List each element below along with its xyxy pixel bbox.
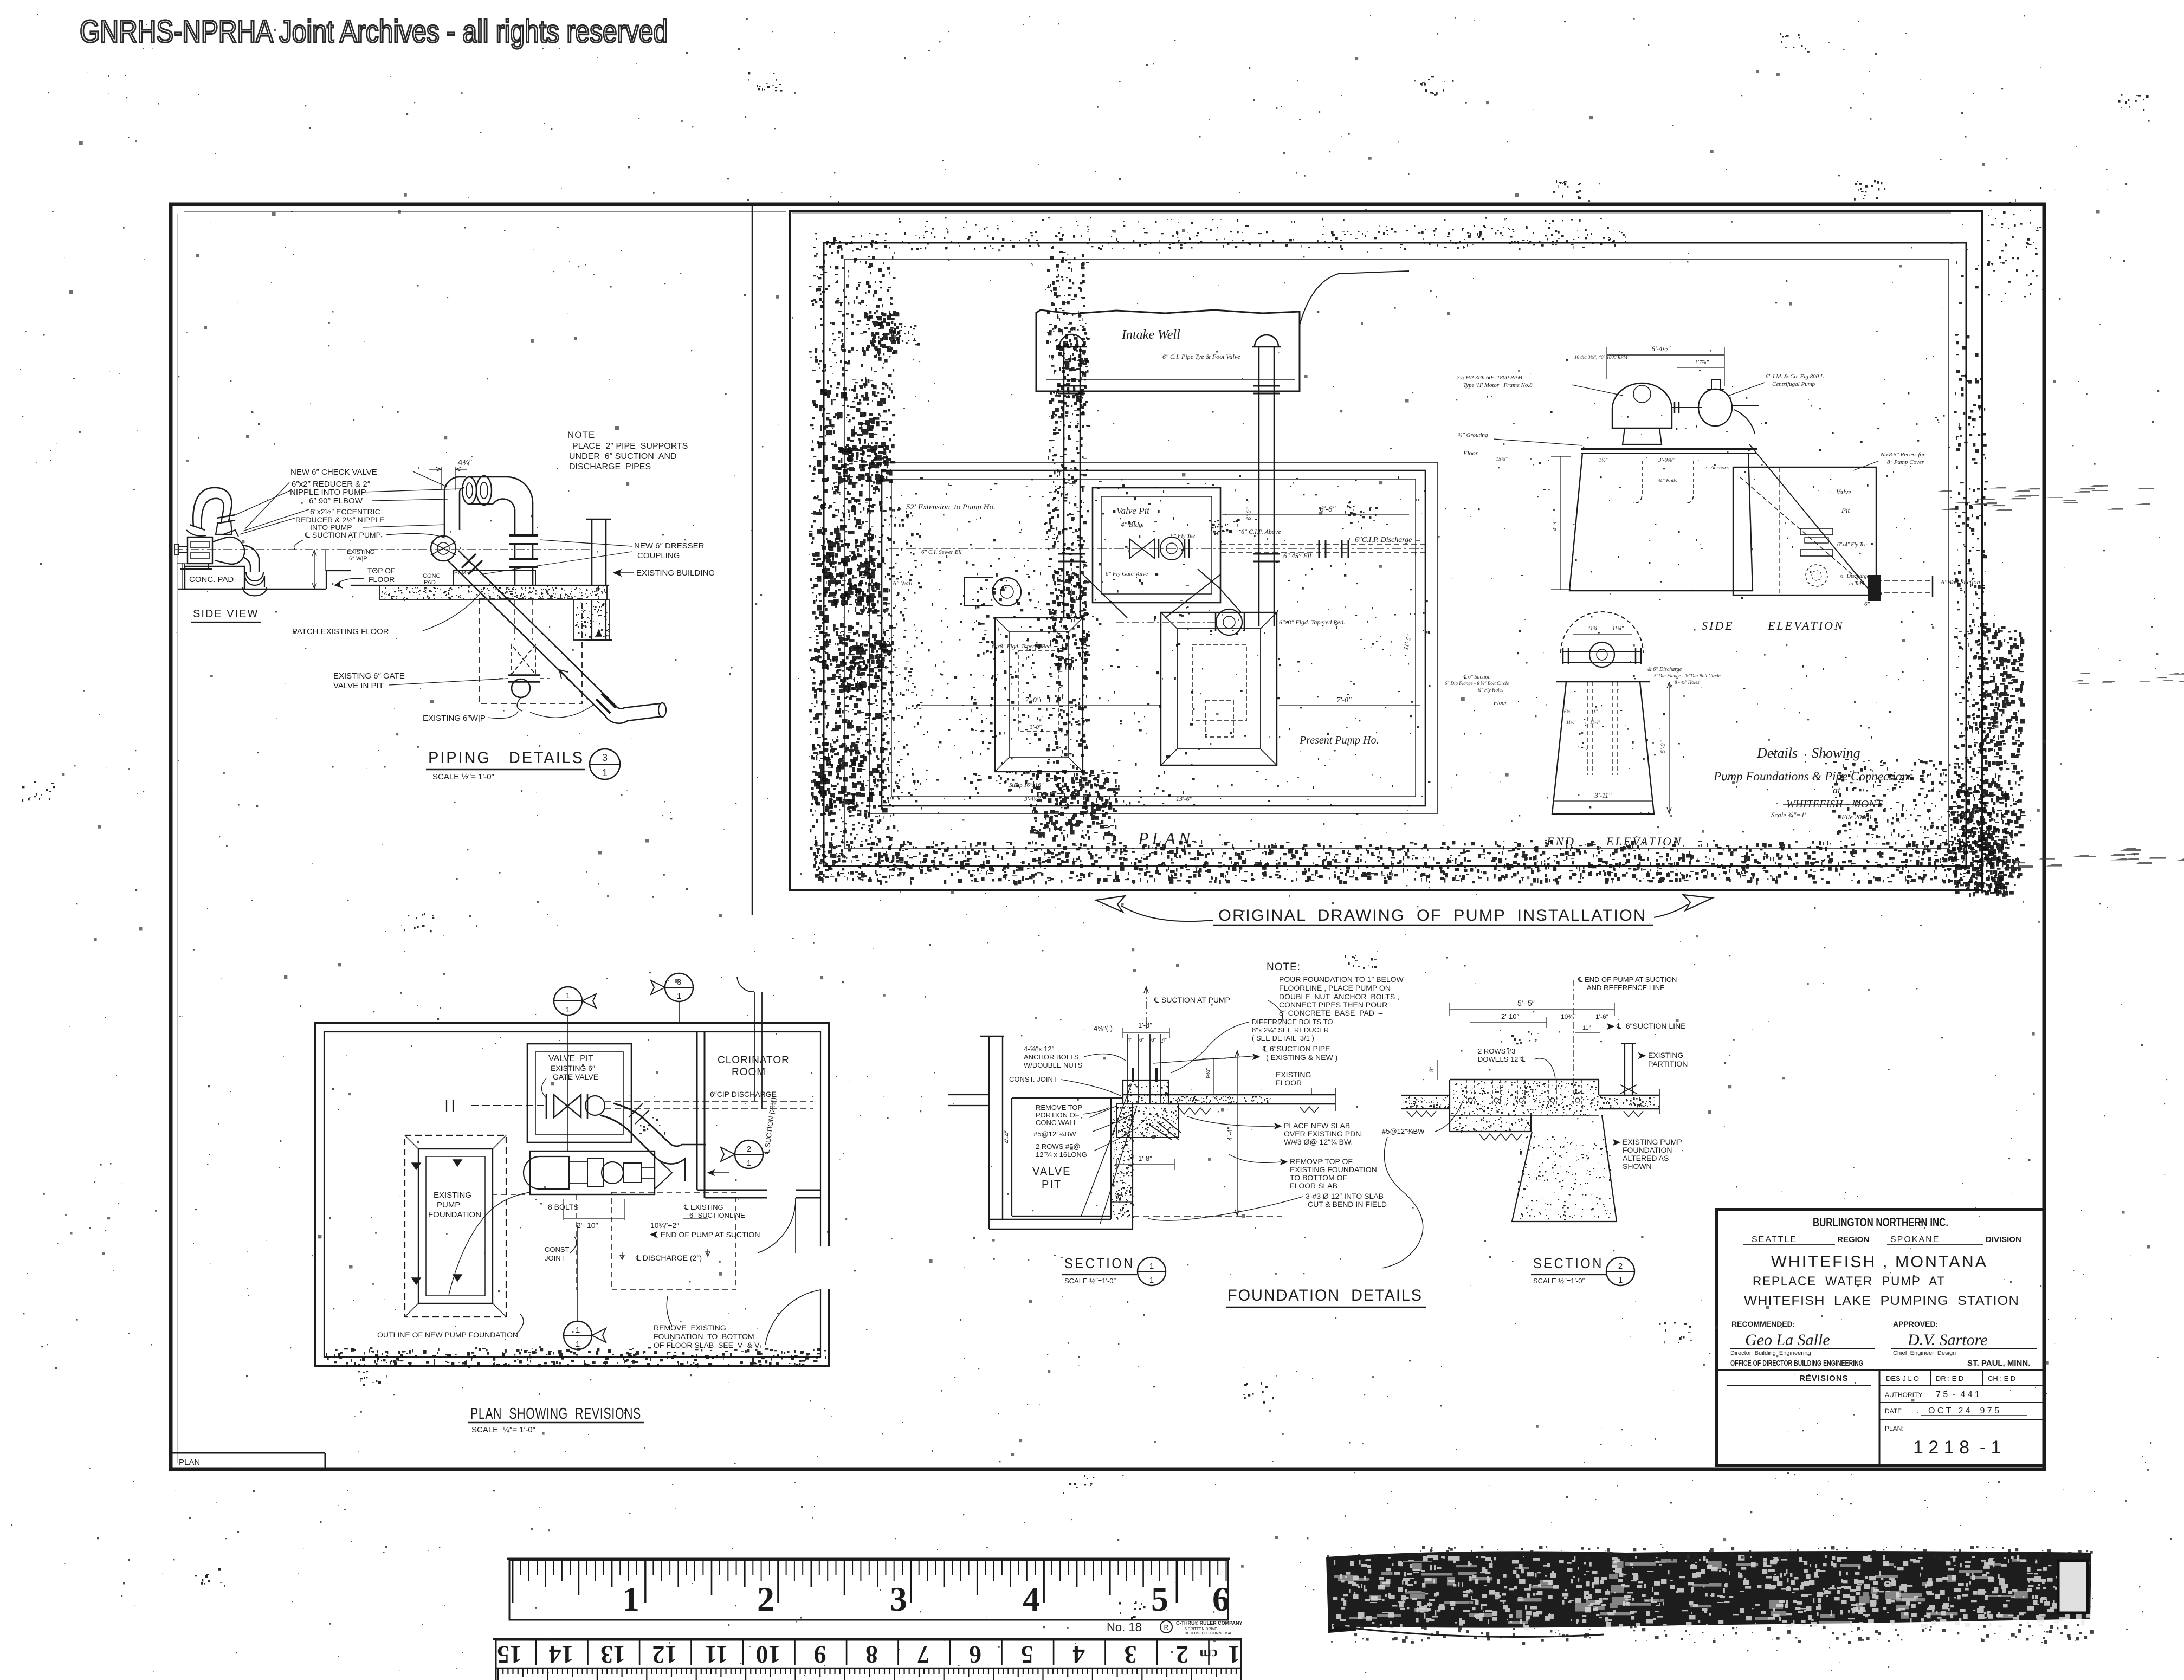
section 1: anchor bolts above pedestal (1127, 1034, 1128, 1103)
svg-text:SCALE ½″=1′-0″: SCALE ½″=1′-0″ (1064, 1277, 1116, 1285)
svg-text:6″ I.M. & Co. Fig 800 L: 6″ I.M. & Co. Fig 800 L (1766, 373, 1824, 380)
pump symbols in plan (993, 578, 1021, 606)
end elevation: dims (1669, 682, 1670, 814)
svg-text:FLOOR: FLOOR (369, 575, 395, 584)
svg-text:ROOM: ROOM (732, 1067, 766, 1078)
svg-text:Floor: Floor (1493, 700, 1508, 706)
svg-text:1½″: 1½″ (1599, 457, 1608, 463)
assembly: second conc pad (453, 571, 535, 585)
pit dashed outline (479, 599, 582, 703)
svg-text:CONC: CONC (423, 573, 440, 579)
left pump foundation (plan) (995, 618, 1083, 772)
discharge dashed to right (605, 1101, 813, 1102)
svg-text:Valve Pit: Valve Pit (1116, 506, 1150, 516)
svg-text:( SEE DETAIL 3/1 ): ( SEE DETAIL 3/1 ) (1252, 1034, 1314, 1042)
fold crease line (752, 206, 753, 915)
svg-text:DOUBLE NUT ANCHOR BOLTS ,: DOUBLE NUT ANCHOR BOLTS , (1279, 992, 1399, 1001)
svg-text:2: 2 (1176, 1641, 1188, 1669)
assembly: check valve (431, 536, 456, 561)
section 1: left wall & pit (988, 1036, 990, 1229)
svg-text:8: 8 (865, 1641, 878, 1669)
intake pipe B (right) (1258, 347, 1260, 626)
svg-text:9¾″: 9¾″ (1205, 1068, 1212, 1078)
svg-text:10¾″: 10¾″ (1561, 1013, 1576, 1020)
svg-text:UNDER 6″ SUCTION AND: UNDER 6″ SUCTION AND (569, 452, 677, 461)
svg-text:PLAN:: PLAN: (1885, 1425, 1904, 1432)
svg-text:11¾″: 11¾″ (1588, 626, 1600, 632)
noise: inset top edge (813, 230, 1626, 251)
svg-text:BLOOMFIELD CONN USA: BLOOMFIELD CONN USA (1185, 1632, 1231, 1636)
side elevation diagonal brace (1749, 444, 1871, 592)
svg-text:6″: 6″ (1151, 1037, 1156, 1043)
suction vertical pipe (754, 992, 755, 1101)
svg-text:4'-3″: 4'-3″ (1552, 519, 1558, 531)
svg-text:W/DOUBLE NUTS: W/DOUBLE NUTS (1024, 1061, 1083, 1069)
svg-text:℄ SUCTION AT PUMP: ℄ SUCTION AT PUMP (305, 531, 381, 539)
valve wheel circle (512, 679, 530, 697)
valve pit (revisions) (527, 1044, 631, 1142)
right pump foundation (plan) (1161, 612, 1277, 765)
svg-text:SECTION: SECTION (1533, 1255, 1604, 1271)
cm ruler cell dividers (535, 1640, 1210, 1665)
end elevation: dims top (1573, 634, 1632, 635)
svg-text:2: 2 (747, 1145, 751, 1154)
side view: dim verticals (314, 550, 315, 589)
svg-text:FLOOR: FLOOR (1276, 1078, 1302, 1087)
noise: specific blobs (889, 325, 920, 346)
section 1: pit right wall / pedestal column (1110, 1098, 1112, 1219)
svg-text:℄ SUCTION AT PUMP: ℄ SUCTION AT PUMP (1154, 996, 1230, 1004)
svg-text:NOTE:: NOTE: (1267, 961, 1301, 973)
svg-text:O C T 2 4 9 7 5: O C T 2 4 9 7 5 (1928, 1406, 1999, 1416)
svg-text:PIT: PIT (1042, 1179, 1062, 1191)
section 1: leader diagonals (1093, 1114, 1132, 1132)
svg-text:6″ C.I. Sewer Ell: 6″ C.I. Sewer Ell (921, 549, 962, 555)
svg-text:ORIGINAL DRAWING OF PUMP I: ORIGINAL DRAWING OF PUMP INSTALLATION (1218, 907, 1646, 925)
noise: inset right columns (1954, 261, 1988, 890)
svg-text:6″ 90° ELBOW: 6″ 90° ELBOW (309, 496, 363, 506)
svg-text:12″¾ x 16LONG: 12″¾ x 16LONG (1036, 1151, 1087, 1159)
svg-text:NIPPLE INTO PUMP: NIPPLE INTO PUMP (290, 488, 366, 497)
svg-text:PATCH EXISTING FLOOR: PATCH EXISTING FLOOR (292, 627, 389, 636)
svg-text:Present Pump Ho.: Present Pump Ho. (1299, 734, 1379, 746)
svg-text:Floor: Floor (1463, 449, 1478, 457)
svg-text:PLACE 2″ PIPE SUPPORTS: PLACE 2″ PIPE SUPPORTS (572, 442, 688, 451)
svg-text:5'-0″: 5'-0″ (1659, 740, 1666, 753)
svg-text:6″x8″ Flgd. Tapered Red.: 6″x8″ Flgd. Tapered Red. (992, 643, 1052, 650)
section 1: suction centerline (1146, 986, 1147, 1031)
svg-text:OVER EXISTING PDN.: OVER EXISTING PDN. (1284, 1129, 1363, 1138)
svg-text:1: 1 (622, 1580, 639, 1618)
section 1: pedestal (1123, 1080, 1168, 1104)
assembly: 4.75 dim (441, 467, 442, 490)
svg-text:REMOVE TOP: REMOVE TOP (1036, 1103, 1082, 1112)
svg-text:¾″ Fly Holes: ¾″ Fly Holes (1477, 687, 1503, 693)
plan box bottom-left (171, 1452, 325, 1454)
svg-text:2″ Anchors: 2″ Anchors (1704, 465, 1729, 471)
svg-text:TO BOTTOM OF: TO BOTTOM OF (1290, 1173, 1347, 1182)
svg-text:4¾″: 4¾″ (458, 458, 473, 467)
svg-text:3: 3 (1125, 1641, 1137, 1669)
svg-text:DIVISION: DIVISION (1986, 1235, 2021, 1244)
svg-text:6″: 6″ (1139, 1037, 1145, 1043)
svg-text:REVISIONS: REVISIONS (1799, 1374, 1849, 1383)
noise: inset bottom band (813, 840, 1981, 885)
svg-text:1'-6″: 1'-6″ (1595, 1013, 1609, 1020)
side view: conc pad (185, 566, 244, 589)
svg-text:11½″ → ← 11½″: 11½″ → ← 11½″ (1566, 720, 1600, 725)
curve from well to frame (1300, 271, 1409, 325)
svg-text:4'-4″: 4'-4″ (1226, 1127, 1234, 1141)
svg-text:WHITEFISH LAKE PUMPING STAT: WHITEFISH LAKE PUMPING STATION (1744, 1294, 2019, 1308)
svg-text:VALVE: VALVE (1032, 1166, 1071, 1178)
svg-text:REMOVE TOP OF: REMOVE TOP OF (1290, 1157, 1353, 1166)
section 2 8in dim (1437, 1060, 1438, 1080)
assembly: floor stipple band (351, 585, 609, 586)
svg-text:FOUNDATION TO BOTTOM: FOUNDATION TO BOTTOM (654, 1332, 754, 1341)
svg-text:1: 1 (566, 991, 570, 1000)
svg-text:1: 1 (602, 767, 608, 778)
svg-text:1: 1 (1149, 1276, 1154, 1285)
side elevation: motor (1612, 383, 1672, 428)
svg-text:6″ Fly Gate Valve: 6″ Fly Gate Valve (1106, 571, 1148, 577)
plan room outline (870, 462, 1438, 813)
svg-text:cm: cm (1199, 1646, 1218, 1662)
svg-text:Valve: Valve (1836, 488, 1851, 496)
svg-text:Scale ¾″=1′: Scale ¾″=1′ (1771, 811, 1806, 819)
section 2 right slab (1599, 1095, 1659, 1096)
svg-text:CONST: CONST (545, 1245, 570, 1253)
svg-text:1 2 1 8 - 1: 1 2 1 8 - 1 (1913, 1437, 2001, 1458)
svg-text:DISCHARGE PIPES: DISCHARGE PIPES (569, 462, 651, 471)
svg-text:SECTION: SECTION (1064, 1255, 1135, 1271)
section 1: new slab under floor (1117, 1104, 1179, 1138)
svg-text:℄ 6″SUCTION PIPE: ℄ 6″SUCTION PIPE (1262, 1044, 1330, 1053)
ruler maker logo (1160, 1621, 1172, 1633)
section 2 partition (1624, 1043, 1625, 1095)
svg-text:6″Wall Suction: 6″Wall Suction (1941, 578, 1980, 586)
wall openings (767, 1188, 796, 1193)
side view pump: motor (188, 537, 212, 564)
svg-text:6″x8″ Flgd. Tapered Red.: 6″x8″ Flgd. Tapered Red. (1279, 618, 1345, 626)
svg-text:2'- 10″: 2'- 10″ (577, 1221, 598, 1230)
svg-text:10¾″+2″: 10¾″+2″ (650, 1221, 679, 1230)
section 2 foundation trapezoid (1512, 1115, 1617, 1222)
svg-text:6'-4½″: 6'-4½″ (1651, 345, 1671, 353)
svg-text:3'-11″: 3'-11″ (1594, 791, 1612, 799)
svg-text:ELEVATION: ELEVATION (1767, 619, 1844, 632)
section 1: right vertical dim (1237, 1050, 1238, 1216)
diagonal pipe: lower flange + elbow + outlet (596, 699, 610, 713)
svg-text:Pit: Pit (1841, 506, 1850, 514)
svg-text:6″ W|P: 6″ W|P (349, 555, 367, 562)
plan dims bottom (921, 705, 1160, 706)
svg-text:7: 7 (917, 1641, 930, 1669)
svg-text:12: 12 (652, 1641, 677, 1669)
side elevation: dims (1607, 354, 1724, 356)
gate valve in pit (dashed bowtie) (512, 645, 535, 674)
svg-text:C-THRU® RULER COMPANY: C-THRU® RULER COMPANY (1176, 1620, 1242, 1626)
side view: floor line and step (178, 589, 326, 590)
svg-text:6″ Dia Flange - 8 ⅝″ Bolt Circ: 6″ Dia Flange - 8 ⅝″ Bolt Circle (1445, 681, 1509, 686)
valve (revisions) (554, 1095, 581, 1117)
svg-text:℄ DISCHARGE (2″): ℄ DISCHARGE (2″) (635, 1253, 702, 1262)
gate valve bowtie (plan) (1130, 539, 1154, 558)
svg-text:1: 1 (576, 1340, 580, 1349)
svg-text:6″x4″ Fly Tee: 6″x4″ Fly Tee (1837, 542, 1867, 548)
end elevation: pump (1561, 612, 1643, 653)
svg-text:4'-4″: 4'-4″ (1003, 1130, 1011, 1143)
svg-text:℄ 6″SUCTION LINE: ℄ 6″SUCTION LINE (1616, 1022, 1686, 1030)
svg-text:ELEVATION: ELEVATION (1606, 835, 1683, 848)
svg-text:SEATTLE: SEATTLE (1752, 1235, 1797, 1244)
smudge right end box (2058, 1561, 2088, 1613)
svg-text:6″ Discharge: 6″ Discharge (1840, 573, 1870, 579)
svg-text:4⅝″( ): 4⅝″( ) (1094, 1024, 1113, 1032)
svg-text:COUPLING: COUPLING (637, 551, 680, 560)
svg-text:GNRHS-NPRHA Joint Archives - a: GNRHS-NPRHA Joint Archives - all rights … (80, 14, 668, 49)
svg-text:EXISTING FOUNDATION: EXISTING FOUNDATION (1290, 1165, 1377, 1174)
section 1: ground hatch (1179, 1107, 1319, 1114)
svg-text:Pump Foundations & Pipe Connec: Pump Foundations & Pipe Connections (1713, 770, 1913, 783)
svg-text:6″C.I.P. Discharge →: 6″C.I.P. Discharge → (1355, 536, 1421, 544)
svg-text:DIFFERENCE BOLTS TO: DIFFERENCE BOLTS TO (1252, 1018, 1333, 1026)
svg-text:4″: 4″ (1127, 1037, 1133, 1043)
svg-text:OF FLOOR SLAB SEE V₁ & V₁: OF FLOOR SLAB SEE V₁ & V₁ (654, 1341, 762, 1349)
svg-text:Details Showing: Details Showing (1756, 745, 1860, 761)
assembly: top elbow + reducer rings (444, 477, 466, 492)
svg-text:EXISTING 6″W|P: EXISTING 6″W|P (423, 714, 486, 723)
svg-text:3: 3 (890, 1580, 907, 1618)
svg-text:℄ EXISTING: ℄ EXISTING (683, 1203, 723, 1211)
diagonal pipe from check valve (448, 560, 605, 715)
svg-text:AND REFERENCE LINE: AND REFERENCE LINE (1587, 984, 1665, 992)
svg-text:6″CIP DISCHARGE: 6″CIP DISCHARGE (710, 1090, 777, 1099)
svg-text:SCALE ½″=1′-0″: SCALE ½″=1′-0″ (1533, 1277, 1585, 1285)
side elevation left dim column (1560, 456, 1561, 590)
inset second inner frame (844, 259, 1949, 849)
existing building wall (591, 519, 593, 586)
revisions plan: outer walls (315, 1023, 829, 1366)
svg-text:11: 11 (705, 1641, 728, 1669)
svg-text:No. 18: No. 18 (1107, 1620, 1142, 1634)
svg-text:PUMP: PUMP (437, 1200, 460, 1210)
svg-text:¾″ Bolts: ¾″ Bolts (1658, 478, 1677, 484)
side elevation: baseplate (1581, 448, 1757, 450)
svg-text:NEW 6″ DRESSER: NEW 6″ DRESSER (634, 541, 705, 551)
noise: center vertical streak (1046, 251, 1090, 810)
svg-text:REMOVE EXISTING: REMOVE EXISTING (654, 1323, 726, 1332)
svg-text:6″ Fly Tee: 6″ Fly Tee (1171, 533, 1195, 539)
svg-text:EXISTING BUILDING: EXISTING BUILDING (636, 568, 715, 578)
svg-text:1: 1 (566, 1005, 570, 1015)
side elevation: suction tank (1733, 467, 1876, 595)
svg-text:CONST. JOINT: CONST. JOINT (1009, 1075, 1057, 1083)
svg-text:CH : E D: CH : E D (1988, 1374, 2015, 1382)
svg-text:& 6″ Discharge: & 6″ Discharge (1647, 667, 1682, 673)
svg-text:SPOKANE: SPOKANE (1890, 1235, 1940, 1244)
svg-text:SCALE ¼″= 1′-0″: SCALE ¼″= 1′-0″ (471, 1425, 536, 1435)
side view: centerline (175, 549, 590, 550)
svg-text:1: 1 (576, 1326, 580, 1335)
svg-text:VALVE IN PIT: VALVE IN PIT (333, 681, 384, 690)
svg-text:13'-6″: 13'-6″ (1176, 795, 1193, 803)
svg-text:2: 2 (1618, 1262, 1623, 1271)
noise: inset left column (809, 239, 896, 878)
svg-text:6'-0″: 6'-0″ (1245, 507, 1252, 520)
inch ruler body (509, 1560, 1228, 1620)
svg-text:EXISTING: EXISTING (1648, 1051, 1683, 1059)
svg-text:OUTLINE OF NEW PUMP FOUNDATION: OUTLINE OF NEW PUMP FOUNDATION (377, 1330, 518, 1339)
black blob right of ruler (1328, 1559, 1356, 1632)
svg-text:1'-8″: 1'-8″ (1138, 1154, 1152, 1162)
svg-text:EXISTING: EXISTING (1276, 1070, 1311, 1079)
svg-text:CONC. PAD: CONC. PAD (189, 575, 234, 584)
svg-text:RECOMMENDED:: RECOMMENDED: (1731, 1320, 1795, 1328)
end elevation: pedestal (1552, 682, 1654, 814)
svg-text:4: 4 (1072, 1641, 1085, 1669)
svg-text:6½″: 6½″ (1564, 709, 1572, 714)
svg-text:1: 1 (1228, 1641, 1240, 1669)
existing pump foundation (revisions) (405, 1135, 506, 1317)
svg-text:7'-0″: 7'-0″ (1336, 696, 1352, 705)
section 1: lower dim (1117, 1164, 1174, 1165)
svg-text:7 5 - 4 4 1: 7 5 - 4 4 1 (1936, 1390, 1980, 1399)
45 deg connections (plan) (1083, 574, 1127, 618)
svg-text:R: R (1164, 1624, 1169, 1631)
svg-text:6″x2½″ ECCENTRIC: 6″x2½″ ECCENTRIC (310, 507, 380, 516)
svg-text:FOUNDATION: FOUNDATION (1623, 1146, 1672, 1154)
svg-text:13: 13 (600, 1641, 625, 1669)
svg-text:1'-8″: 1'-8″ (1138, 1021, 1152, 1029)
noise: inset plan interior (895, 477, 1195, 805)
noise: right margin dash rows (1935, 485, 2184, 869)
svg-text:No.8.5″ Recess for: No.8.5″ Recess for (1880, 451, 1925, 458)
intake well (1036, 310, 1300, 391)
svg-text:#5@12″¾BW: #5@12″¾BW (1382, 1127, 1425, 1135)
dashed remove-foundation outline (611, 1192, 736, 1290)
section 2 ground hatch under step (1479, 1134, 1522, 1140)
svg-text:#5@12″¾BW: #5@12″¾BW (1033, 1130, 1076, 1138)
side view pump: volute (212, 537, 244, 564)
svg-text:REPLACE WATER PUMP AT: REPLACE WATER PUMP AT (1753, 1274, 1946, 1289)
svg-text:CLORINATOR: CLORINATOR (718, 1055, 790, 1066)
leaders converging to pump (245, 482, 289, 529)
svg-text:1: 1 (1149, 1262, 1154, 1271)
section markers (revisions) (554, 987, 582, 1015)
inch ruler ticks (512, 1560, 1227, 1603)
svg-text:SHOWN: SHOWN (1623, 1162, 1652, 1171)
svg-text:52' Extension to Pump Ho.: 52' Extension to Pump Ho. (906, 503, 996, 512)
svg-text:16 dia 3⅜″, 40° 1800 RPM: 16 dia 3⅜″, 40° 1800 RPM (1574, 354, 1628, 360)
svg-text:WHITEFISH , MONTANA: WHITEFISH , MONTANA (1771, 1253, 1988, 1271)
svg-text:FOUNDATION: FOUNDATION (428, 1210, 481, 1219)
svg-text:8″: 8″ (1429, 1067, 1435, 1072)
svg-text:NOTE: NOTE (567, 430, 595, 440)
svg-text:9: 9 (814, 1641, 826, 1669)
assembly: elbow down to vertical pipe (507, 477, 533, 535)
svg-text:Geo La Salle: Geo La Salle (1745, 1331, 1830, 1349)
valve pit (plan) (1093, 488, 1220, 603)
reducer rings (462, 477, 476, 504)
svg-text:5: 5 (1021, 1641, 1033, 1669)
svg-text:EXISTING: EXISTING (434, 1191, 471, 1200)
svg-text:FOUNDATION DETAILS: FOUNDATION DETAILS (1227, 1287, 1423, 1304)
svg-text:3: 3 (602, 752, 608, 763)
svg-text:15: 15 (497, 1641, 522, 1669)
svg-text:14: 14 (549, 1641, 574, 1669)
svg-text:PORTION OF: PORTION OF (1036, 1111, 1080, 1119)
svg-text:3'-0″: 3'-0″ (1029, 724, 1042, 731)
svg-text:FLOORLINE , PLACE PUMP ON: FLOORLINE , PLACE PUMP ON (1279, 984, 1391, 992)
side elevation: pump (1698, 389, 1732, 426)
svg-text:2: 2 (757, 1580, 774, 1618)
svg-text:8″ CONCRETE BASE PAD –: 8″ CONCRETE BASE PAD – (1279, 1009, 1383, 1017)
dim 6-6 (1222, 514, 1409, 515)
svg-text:4: 4 (1023, 1580, 1040, 1618)
inset inner frame (824, 243, 1966, 866)
svg-text:4-⅝″x 12″: 4-⅝″x 12″ (1024, 1045, 1055, 1053)
svg-text:CONC WALL: CONC WALL (1036, 1119, 1077, 1127)
smudge stamp band (1327, 1552, 2091, 1627)
svg-text:¾″ Grouting: ¾″ Grouting (1458, 432, 1488, 438)
svg-text:CONNECT PIPES THEN POUR: CONNECT PIPES THEN POUR (1279, 1000, 1387, 1009)
svg-text:℄ 6″ Suction: ℄ 6″ Suction (1463, 674, 1491, 680)
svg-text:6″ SUCTIONLINE: 6″ SUCTIONLINE (689, 1211, 745, 1219)
svg-text:10: 10 (756, 1641, 781, 1669)
clorinator room walls (696, 1032, 698, 1190)
svg-text:11¾″: 11¾″ (1612, 626, 1624, 632)
svg-text:POUR FOUNDATION TO 1″ BELOW: POUR FOUNDATION TO 1″ BELOW (1279, 975, 1404, 984)
svg-text:OFFICE OF DIRECTOR BUILDING EN: OFFICE OF DIRECTOR BUILDING ENGINEERING (1730, 1359, 1863, 1368)
svg-text:PAD: PAD (424, 579, 436, 586)
svg-text:2 ROWS #5@: 2 ROWS #5@ (1036, 1142, 1081, 1151)
side view pump: nipple flanges (217, 515, 235, 518)
svg-text:Centrifugal Pump: Centrifugal Pump (1772, 381, 1815, 387)
svg-text:DATE: DATE (1885, 1407, 1902, 1415)
svg-text:BURLINGTON NORTHERN INC.: BURLINGTON NORTHERN INC. (1813, 1216, 1948, 1229)
section 2 bolts (1466, 1080, 1467, 1106)
svg-text:GATE VALVE: GATE VALVE (553, 1072, 598, 1081)
svg-text:15⅛″: 15⅛″ (1496, 456, 1508, 462)
svg-text:AUTHORITY: AUTHORITY (1885, 1391, 1922, 1399)
svg-text:Intake Well: Intake Well (1121, 328, 1180, 342)
svg-text:1: 1 (1618, 1276, 1623, 1285)
svg-text:℄ END OF PUMP AT SUCTION: ℄ END OF PUMP AT SUCTION (653, 1230, 760, 1239)
svg-text:PLAN: PLAN (179, 1458, 200, 1467)
svg-text:2'-10″: 2'-10″ (1501, 1012, 1520, 1020)
svg-text:3'-0⅜″: 3'-0⅜″ (1658, 457, 1675, 463)
section 2 top dims (1450, 1009, 1614, 1010)
svg-text:ST. PAUL, MINN.: ST. PAUL, MINN. (1967, 1359, 2030, 1368)
svg-text:8 - ¾″ Holes: 8 - ¾″ Holes (1675, 680, 1700, 685)
svg-text:6 BRITTON DRIVE: 6 BRITTON DRIVE (1185, 1627, 1217, 1631)
big elbow pipe from pit (600, 1115, 655, 1156)
svg-text:( EXISTING & NEW ): ( EXISTING & NEW ) (1266, 1053, 1337, 1062)
cm ruler mm ticks (496, 1668, 1241, 1669)
svg-text:SIDE VIEW: SIDE VIEW (193, 608, 259, 620)
svg-text:8″ Pump Cover: 8″ Pump Cover (1887, 459, 1924, 466)
svg-text:6: 6 (969, 1641, 981, 1669)
svg-text:ALTERED AS: ALTERED AS (1623, 1154, 1669, 1162)
svg-text:DES J L O: DES J L O (1886, 1374, 1919, 1382)
discharge line (plan) (1220, 544, 1425, 545)
svg-text:APPROVED:: APPROVED: (1893, 1320, 1938, 1328)
svg-text:TOP OF: TOP OF (367, 566, 396, 575)
svg-text:7'-0″: 7'-0″ (1025, 696, 1040, 705)
svg-text:EXISTING 6″: EXISTING 6″ (551, 1064, 595, 1072)
svg-text:FLOOR SLAB: FLOOR SLAB (1290, 1181, 1337, 1190)
